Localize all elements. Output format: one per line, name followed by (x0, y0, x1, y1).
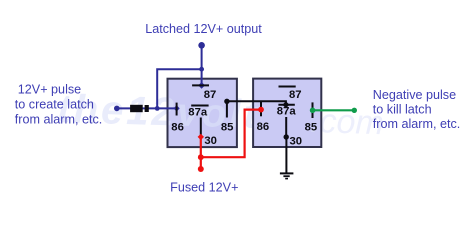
inline connector tip (145, 105, 149, 112)
svg-text:to create latch: to create latch (15, 98, 94, 112)
svg-text:30: 30 (204, 135, 217, 147)
node: fused 12V+ terminal (198, 166, 204, 172)
relay K1 pin 85 bar (226, 101, 228, 117)
svg-text:Latched 12V+ output: Latched 12V+ output (145, 22, 262, 36)
wire: relay K2 pin 30 to ground (285, 137, 287, 173)
node: connection at K1 pin 87 bar (198, 82, 205, 89)
ground symbol bar 1 (280, 172, 294, 174)
svg-text:86: 86 (171, 122, 184, 134)
node: dot at K1 pin 85 (224, 99, 229, 104)
wire: latch feedback from 86 junction up and over to pin 87 (157, 69, 201, 108)
relay K1 pin 86 bar (176, 103, 178, 116)
svg-text:87: 87 (204, 89, 217, 101)
wire: 12V+ pulse input to relay K1 pin 86 (117, 107, 177, 109)
svg-text:from alarm, etc.: from alarm, etc. (15, 113, 102, 127)
ground symbol bar 3 (285, 178, 288, 180)
watermark the12volt.com (over relay bodies) (57, 87, 385, 142)
node: negative pulse terminal (352, 108, 357, 113)
relay K1 pin 30 stub (200, 118, 202, 137)
svg-text:Fused 12V+: Fused 12V+ (170, 181, 238, 195)
node: red junction below K1 (198, 154, 204, 160)
relay K1 pin 87a bar (191, 105, 208, 107)
relay K2 pin 85 bar (312, 102, 314, 118)
node: junction on 86 wire (155, 106, 160, 111)
relay K2 border (253, 79, 321, 147)
wire: relay K1 pin 85 to relay K2 pin 87a (227, 101, 286, 103)
inline connector body (130, 105, 143, 112)
svg-text:to kill latch: to kill latch (373, 102, 432, 116)
wire: fused 12V+ riser from relay K1 pin 30 (200, 137, 202, 169)
relay K2 pin 87 bar (279, 86, 296, 88)
relay K2 pin 30 stub (285, 117, 287, 137)
svg-text:12V+ pulse: 12V+ pulse (18, 83, 81, 97)
node: connection at K1 pin 86 bar (174, 105, 180, 111)
svg-text:30: 30 (290, 136, 303, 148)
node: junction above relay K1 (199, 67, 204, 72)
wire: fused 12V+ branch to relay K2 pin 86 (201, 110, 259, 158)
svg-text:86: 86 (257, 121, 270, 133)
wire: negative pulse to relay K2 pin 85 (313, 109, 355, 111)
node: red diamond at K1 pin 30 (198, 134, 204, 140)
wire: latched output riser into relay K1 pin 87 (201, 45, 203, 84)
svg-text:87: 87 (289, 89, 302, 101)
ground symbol bar 2 (283, 175, 289, 177)
relay K2 body (253, 79, 321, 147)
svg-text:Negative pulse: Negative pulse (373, 88, 456, 102)
node: dot at K2 pin 30 (284, 134, 289, 139)
svg-text:85: 85 (305, 122, 318, 134)
node: latched 12V+ output terminal (198, 42, 205, 49)
node: connection at K2 pin 87a bar (282, 101, 289, 108)
svg-text:from alarm, etc.: from alarm, etc. (373, 117, 460, 131)
watermark the12volt.com (on page) (57, 87, 385, 142)
relay K1 body (168, 79, 237, 147)
relay K1 pin 87 bar (192, 84, 209, 86)
svg-text:85: 85 (221, 122, 234, 134)
node: green dot at K2 pin 85 (310, 108, 316, 114)
svg-text:87a: 87a (188, 106, 208, 118)
svg-text:87a: 87a (277, 106, 297, 118)
relay K2 pin 87a bar (278, 104, 294, 106)
relay K1 border (168, 79, 237, 147)
node: red dot at K2 pin 86 (258, 107, 264, 113)
node: input terminal dot (114, 106, 120, 112)
relay K2 pin 86 bar (260, 102, 262, 117)
